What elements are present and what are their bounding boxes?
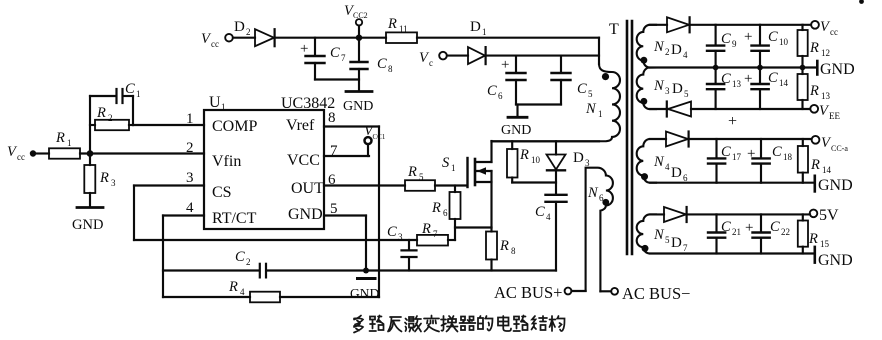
stray mark top right bbox=[859, 0, 864, 4]
svg-text:D: D bbox=[671, 165, 682, 181]
svg-text:15: 15 bbox=[820, 239, 830, 249]
svg-text:GND: GND bbox=[501, 123, 531, 138]
ground GND group3 terminal bbox=[815, 247, 853, 269]
svg-text:6: 6 bbox=[443, 208, 448, 218]
svg-text:7: 7 bbox=[433, 229, 438, 239]
svg-text:Vfin: Vfin bbox=[212, 153, 241, 170]
svg-text:D: D bbox=[671, 235, 682, 251]
pin 8 Vref bbox=[286, 110, 379, 134]
svg-text:2: 2 bbox=[246, 257, 251, 267]
svg-text:+: + bbox=[300, 41, 308, 57]
capacitor C10 electrolytic bbox=[744, 25, 789, 68]
wire pin4 vertical bbox=[162, 216, 164, 298]
capacitor C1 bbox=[90, 81, 141, 103]
node AC BUS+ terminal bbox=[494, 283, 586, 302]
svg-text:EE: EE bbox=[829, 111, 840, 121]
resistor R14 bbox=[798, 139, 832, 183]
svg-text:1: 1 bbox=[221, 102, 226, 112]
svg-text:5: 5 bbox=[684, 89, 689, 99]
diode D2 bbox=[233, 19, 275, 46]
svg-text:13: 13 bbox=[732, 79, 742, 89]
capacitor C4 bbox=[535, 195, 567, 271]
svg-text:1: 1 bbox=[598, 109, 603, 119]
svg-text:S: S bbox=[442, 155, 450, 171]
svg-text:N: N bbox=[587, 185, 599, 201]
svg-text:1: 1 bbox=[451, 163, 456, 173]
node Vcc2 terminal bbox=[344, 3, 368, 41]
resistor R8 bbox=[486, 228, 516, 271]
svg-text:1: 1 bbox=[67, 138, 72, 148]
svg-text:GND: GND bbox=[343, 99, 373, 114]
svg-text:22: 22 bbox=[781, 227, 790, 237]
wire pin3 vertical bbox=[133, 186, 135, 241]
svg-text:2: 2 bbox=[186, 140, 194, 156]
wire ground rail bbox=[267, 269, 557, 271]
svg-text:13: 13 bbox=[821, 91, 831, 101]
svg-text:10: 10 bbox=[531, 155, 541, 165]
svg-text:7: 7 bbox=[683, 243, 688, 253]
resistor R7 bbox=[417, 221, 455, 246]
node 5V output terminal bbox=[810, 207, 839, 224]
resistor R6 bbox=[431, 186, 461, 241]
transformer T core bbox=[609, 21, 632, 254]
svg-text:N: N bbox=[653, 39, 665, 55]
svg-text:C: C bbox=[721, 219, 731, 235]
svg-text:C: C bbox=[721, 144, 731, 160]
wire group2 top line bbox=[689, 138, 812, 140]
svg-text:2: 2 bbox=[246, 27, 251, 37]
winding N3 bbox=[637, 68, 670, 110]
transistor Q S1 MOSFET bbox=[442, 141, 492, 228]
svg-text:C: C bbox=[770, 219, 780, 235]
svg-text:9: 9 bbox=[732, 39, 737, 49]
svg-text:4: 4 bbox=[683, 50, 688, 60]
svg-text:N: N bbox=[653, 227, 665, 243]
wire group3 top line bbox=[687, 213, 810, 215]
svg-text:CC2: CC2 bbox=[353, 11, 368, 20]
wire Vc line bbox=[486, 55, 599, 57]
svg-text:CS: CS bbox=[212, 184, 232, 201]
capacitor C7 electrolytic bbox=[300, 38, 359, 80]
pin 4 RT/CT bbox=[163, 200, 257, 227]
winding N4 bbox=[637, 139, 670, 183]
winding N2 bbox=[637, 25, 670, 68]
diode D4 bbox=[650, 17, 690, 60]
svg-text:8: 8 bbox=[388, 64, 393, 74]
resistor R11 bbox=[386, 16, 417, 43]
svg-text:T: T bbox=[609, 21, 619, 38]
capacitor C9 bbox=[707, 25, 737, 68]
wire bbox=[36, 152, 49, 154]
winding N1 primary bbox=[492, 64, 621, 141]
svg-text:VCC: VCC bbox=[287, 152, 320, 169]
resistor R1 bbox=[49, 130, 80, 159]
svg-text:AC BUS+: AC BUS+ bbox=[494, 283, 562, 302]
svg-text:R: R bbox=[407, 164, 417, 180]
wire CS line bbox=[134, 239, 417, 241]
svg-text:14: 14 bbox=[779, 78, 789, 88]
node Vc terminal bbox=[419, 50, 447, 68]
pin 5 GND bbox=[288, 201, 366, 223]
svg-text:4: 4 bbox=[240, 287, 245, 297]
svg-text:18: 18 bbox=[783, 152, 793, 162]
svg-text:C: C bbox=[487, 83, 497, 99]
svg-text:C: C bbox=[577, 81, 587, 97]
capacitor C5 bbox=[552, 56, 594, 105]
svg-text:3: 3 bbox=[665, 86, 670, 96]
svg-text:R: R bbox=[809, 83, 819, 99]
svg-text:+: + bbox=[728, 113, 737, 130]
svg-text:cc: cc bbox=[211, 39, 219, 49]
resistor R2 bbox=[90, 105, 133, 130]
wire top rail right bbox=[417, 37, 599, 39]
svg-text:8: 8 bbox=[511, 246, 516, 256]
svg-text:6: 6 bbox=[599, 193, 604, 203]
svg-text:AC BUS−: AC BUS− bbox=[622, 284, 690, 303]
svg-text:C: C bbox=[377, 56, 387, 72]
svg-text:R: R bbox=[809, 40, 819, 56]
svg-text:6: 6 bbox=[683, 173, 688, 183]
capacitor C21 bbox=[708, 214, 741, 253]
svg-text:4: 4 bbox=[186, 200, 194, 216]
svg-text:6: 6 bbox=[498, 91, 503, 101]
svg-text:C: C bbox=[768, 70, 778, 86]
svg-text:R: R bbox=[519, 147, 529, 163]
svg-text:cc: cc bbox=[17, 152, 25, 162]
svg-text:+: + bbox=[744, 29, 752, 45]
svg-text:OUT: OUT bbox=[291, 180, 324, 197]
resistor R13 bbox=[798, 68, 831, 110]
wire Vref vertical bbox=[378, 127, 380, 298]
ground bbox=[343, 92, 373, 115]
svg-text:C: C bbox=[125, 81, 135, 97]
svg-text:4: 4 bbox=[665, 162, 670, 172]
pin 7 VCC bbox=[287, 143, 369, 169]
svg-text:+: + bbox=[501, 57, 509, 73]
svg-text:RT/CT: RT/CT bbox=[212, 210, 257, 227]
svg-text:21: 21 bbox=[732, 227, 741, 237]
wire pin2 line bbox=[80, 152, 204, 154]
node Vcc1 terminal on pin7 bbox=[364, 123, 386, 156]
svg-text:2: 2 bbox=[108, 113, 113, 123]
svg-text:R: R bbox=[96, 105, 106, 121]
svg-text:+: + bbox=[747, 146, 755, 162]
wire source node line bbox=[455, 226, 492, 228]
svg-text:14: 14 bbox=[822, 165, 832, 175]
wire pin5 vertical bbox=[365, 216, 367, 271]
pin 2 Vfin bbox=[186, 140, 241, 170]
wire group1 mid line bbox=[650, 66, 816, 68]
capacitor C17 bbox=[708, 139, 742, 183]
capacitor C22 electrolytic bbox=[745, 214, 790, 253]
svg-text:R: R bbox=[99, 170, 109, 186]
wire group3 bottom line bbox=[650, 252, 814, 254]
svg-text:R: R bbox=[421, 221, 431, 237]
svg-text:8: 8 bbox=[328, 110, 336, 126]
caption 多路反激变换器的电路结构 (drawn strokes) bbox=[354, 316, 565, 333]
node AC BUS- terminal bbox=[600, 284, 690, 303]
wire group2 bottom line bbox=[650, 182, 814, 184]
svg-text:11: 11 bbox=[399, 24, 408, 34]
pin 3 CS bbox=[134, 170, 232, 201]
svg-text:3: 3 bbox=[186, 170, 194, 186]
svg-text:GND: GND bbox=[820, 61, 855, 78]
svg-text:GND: GND bbox=[818, 177, 853, 194]
resistor R5 bbox=[405, 164, 467, 191]
wire bbox=[89, 96, 91, 154]
diode D3 bbox=[547, 141, 591, 194]
svg-text:N: N bbox=[585, 101, 597, 117]
capacitor C18 electrolytic bbox=[747, 139, 793, 183]
svg-text:5V: 5V bbox=[819, 207, 839, 224]
winding N6 aux bbox=[586, 168, 613, 292]
svg-text:R: R bbox=[387, 16, 397, 32]
svg-text:GND: GND bbox=[72, 217, 103, 233]
svg-text:CC-a: CC-a bbox=[831, 144, 848, 153]
op-amp U1 UC3842 IC box bbox=[204, 94, 335, 229]
svg-text:C: C bbox=[535, 204, 545, 220]
svg-text:C: C bbox=[235, 249, 245, 265]
svg-text:5: 5 bbox=[665, 235, 670, 245]
resistor R12 bbox=[798, 25, 831, 68]
svg-text:5: 5 bbox=[419, 172, 424, 182]
node junction dots mid line bbox=[713, 65, 806, 71]
node junction bbox=[87, 150, 94, 157]
capacitor C3 bbox=[387, 224, 417, 271]
wire group1 top line bbox=[690, 24, 811, 26]
svg-text:D: D bbox=[234, 19, 245, 35]
svg-text:3: 3 bbox=[585, 158, 590, 168]
capacitor C2 bbox=[163, 249, 266, 277]
svg-text:4: 4 bbox=[546, 212, 551, 222]
svg-text:C: C bbox=[721, 31, 731, 47]
node ground junction bbox=[363, 268, 369, 274]
svg-text:GND: GND bbox=[288, 206, 323, 223]
svg-text:R: R bbox=[808, 231, 818, 247]
svg-text:GND: GND bbox=[350, 286, 379, 301]
svg-text:N: N bbox=[653, 78, 665, 94]
svg-text:7: 7 bbox=[341, 53, 346, 63]
wire drain line bbox=[492, 140, 600, 142]
svg-text:Vref: Vref bbox=[286, 117, 315, 134]
node Vcc output terminal bbox=[811, 19, 838, 37]
svg-text:3: 3 bbox=[398, 232, 403, 242]
wire bbox=[132, 96, 134, 125]
resistor R15 bbox=[798, 214, 830, 253]
svg-text:C: C bbox=[330, 45, 340, 61]
ground bbox=[501, 105, 531, 139]
diode D7 bbox=[650, 207, 688, 253]
svg-text:10: 10 bbox=[779, 37, 789, 47]
node Vcc top-left terminal bbox=[201, 31, 233, 49]
resistor R4 bbox=[163, 279, 379, 302]
ground bbox=[350, 279, 379, 302]
pin 1 COMP bbox=[133, 111, 257, 135]
svg-text:C: C bbox=[772, 144, 782, 160]
node Vcc input terminal bbox=[7, 144, 36, 162]
ground bbox=[72, 208, 103, 234]
svg-text:2: 2 bbox=[665, 47, 670, 57]
svg-text:C: C bbox=[721, 71, 731, 87]
svg-text:3: 3 bbox=[111, 178, 116, 188]
pin 6 OUT bbox=[291, 172, 405, 197]
node VEE output terminal bbox=[810, 103, 840, 121]
svg-text:1: 1 bbox=[136, 89, 141, 99]
wire group1 bottom line bbox=[691, 108, 810, 110]
wire rail drop bbox=[598, 38, 600, 64]
wire top rail bbox=[275, 37, 386, 39]
svg-text:D: D bbox=[672, 81, 683, 97]
svg-text:1: 1 bbox=[482, 27, 487, 37]
svg-text:12: 12 bbox=[821, 48, 830, 58]
diode D5 bbox=[650, 81, 691, 117]
svg-text:R: R bbox=[55, 130, 65, 146]
capacitor C8 bbox=[351, 38, 394, 91]
svg-text:R: R bbox=[431, 200, 441, 216]
svg-text:R: R bbox=[228, 279, 238, 295]
diode D1 bbox=[447, 19, 487, 64]
wire cap bottoms join bbox=[516, 103, 561, 105]
svg-text:R: R bbox=[810, 157, 820, 173]
node VCC-a output terminal bbox=[812, 135, 849, 153]
svg-text:c: c bbox=[429, 58, 433, 68]
svg-text:cc: cc bbox=[830, 27, 838, 37]
svg-text:COMP: COMP bbox=[212, 118, 257, 135]
resistor R10 bbox=[507, 141, 556, 182]
svg-text:17: 17 bbox=[732, 152, 742, 162]
resistor R3 bbox=[84, 154, 116, 207]
diode D6 bbox=[650, 132, 689, 184]
svg-text:C: C bbox=[387, 224, 397, 240]
svg-text:D: D bbox=[573, 150, 584, 166]
capacitor C6 electrolytic bbox=[487, 56, 526, 105]
svg-text:D: D bbox=[671, 42, 682, 58]
svg-text:C: C bbox=[768, 29, 778, 45]
svg-text:GND: GND bbox=[818, 252, 853, 269]
svg-text:5: 5 bbox=[588, 89, 593, 99]
ground GND mid terminal bbox=[817, 61, 854, 78]
capacitor C14 electrolytic bbox=[744, 68, 789, 110]
svg-text:N: N bbox=[653, 154, 665, 170]
svg-text:U: U bbox=[209, 94, 221, 111]
svg-text:D: D bbox=[470, 19, 481, 35]
capacitor C13 bbox=[707, 68, 742, 110]
svg-text:R: R bbox=[499, 238, 509, 254]
ground GND group2 terminal bbox=[815, 176, 853, 194]
winding N5 bbox=[637, 214, 670, 253]
